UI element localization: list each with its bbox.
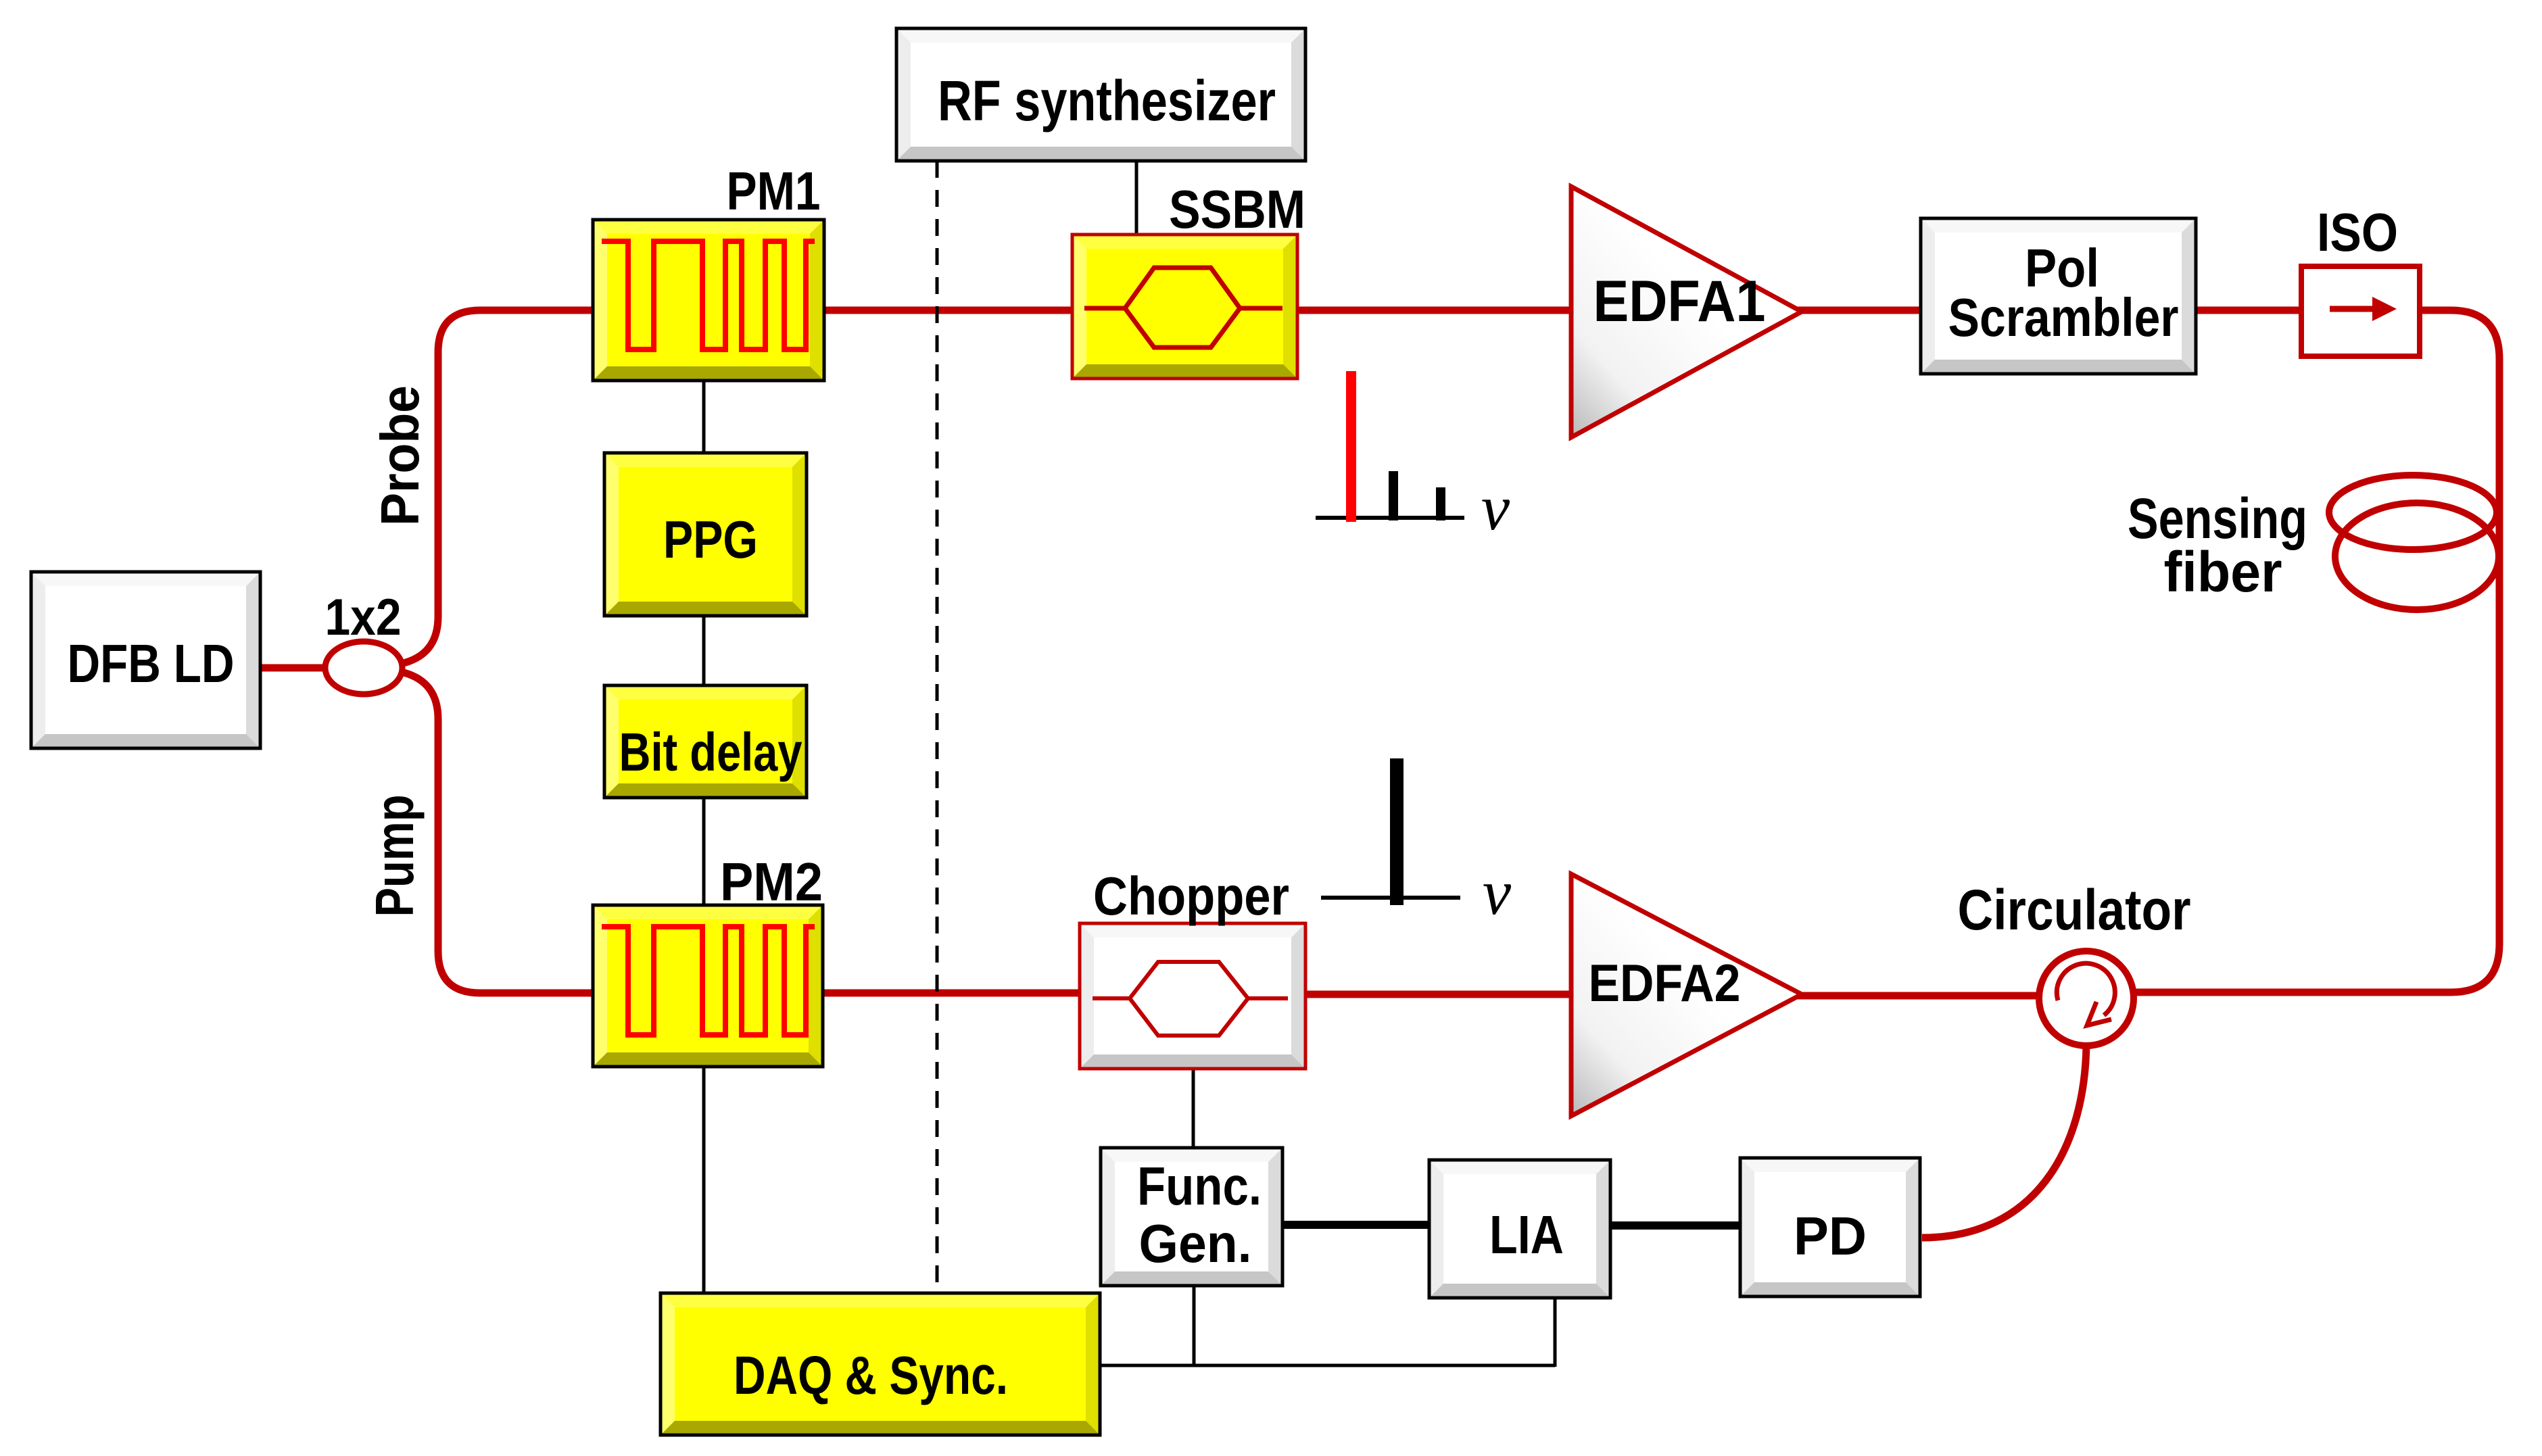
svg-text:PPG: PPG (663, 510, 758, 569)
svg-text:EDFA1: EDFA1 (1593, 269, 1766, 334)
wire Bit delay to PM2 (702, 796, 706, 907)
wire LIA down (1554, 1296, 1557, 1367)
svg-text:ν: ν (1481, 472, 1510, 543)
svg-text:PM1: PM1 (727, 161, 821, 221)
wire chopper to Func Gen (1192, 1067, 1195, 1150)
wire fiber to circulator (2130, 944, 2499, 992)
svg-text:PM2: PM2 (720, 852, 823, 912)
wire circulator to PD (1922, 1044, 2086, 1238)
wire LIA to PD (thick) (1609, 1221, 1742, 1230)
svg-text:SSBM: SSBM (1169, 179, 1305, 239)
svg-text:RF synthesizer: RF synthesizer (938, 69, 1276, 132)
ISO isolator (2301, 266, 2420, 356)
svg-text:Chopper: Chopper (1093, 866, 1289, 926)
PM2 phase modulator (593, 905, 823, 1067)
svg-text:DAQ & Sync.: DAQ & Sync. (734, 1345, 1008, 1405)
SSBM single sideband modulator (1072, 235, 1297, 379)
EDFA1 amplifier (1571, 187, 1802, 437)
dashed sync line (936, 161, 939, 1288)
DFB LD laser box (31, 572, 260, 748)
svg-text:EDFA2: EDFA2 (1589, 953, 1741, 1013)
1x2 coupler (325, 641, 402, 694)
wire ISO to sensing fiber loop (2418, 310, 2499, 944)
svg-text:PD: PD (1794, 1206, 1867, 1266)
wire PM1 to PPG (702, 379, 706, 455)
wire PM2 to chopper (821, 990, 1081, 997)
svg-text:Probe: Probe (370, 385, 430, 526)
svg-text:ISO: ISO (2317, 202, 2398, 262)
DAQ and Sync box (661, 1293, 1100, 1435)
chopper modulator box (1080, 923, 1305, 1069)
wire SSBM to EDFA1 (1296, 307, 1573, 314)
PM1 phase modulator (593, 220, 824, 381)
wire Func Gen down (1193, 1284, 1196, 1365)
wire EDFA1 to Pol Scrambler (1795, 307, 1922, 314)
circulator (2039, 951, 2134, 1046)
wire Func Gen to LIA (thick) (1281, 1221, 1431, 1229)
PD photodetector box (1740, 1158, 1920, 1296)
LIA lock-in amplifier box (1429, 1160, 1610, 1298)
PPG pulse pattern generator (604, 453, 807, 616)
wire chopper to EDFA2 (1304, 991, 1573, 998)
Pol Scrambler box (1921, 218, 2196, 374)
svg-text:Circulator: Circulator (1958, 878, 2191, 942)
wire PPG to Bit delay (702, 614, 706, 687)
svg-text:DFB LD: DFB LD (68, 633, 235, 694)
svg-text:1x2: 1x2 (325, 589, 402, 646)
svg-text:fiber: fiber (2164, 540, 2282, 604)
wire RF synthesizer to SSBM (1135, 159, 1138, 237)
wire Pol Scrambler to ISO (2195, 307, 2303, 314)
sensing fiber coil (2329, 475, 2497, 550)
svg-text:LIA: LIA (1489, 1205, 1564, 1265)
svg-text:Gen.: Gen. (1139, 1213, 1252, 1273)
svg-text:ν: ν (1483, 856, 1512, 928)
RF synthesizer box (896, 28, 1305, 161)
Bit delay box (604, 685, 807, 798)
svg-text:Bit delay: Bit delay (619, 722, 802, 782)
wire (259, 664, 327, 672)
wire PM1 to SSBM (823, 307, 1074, 314)
Func. Gen. box (1101, 1148, 1282, 1286)
wire PM2 to DAQ (702, 1065, 706, 1295)
pump optical spectrum sketch (1321, 896, 1460, 900)
wire EDFA2 to circulator (1795, 992, 2042, 1000)
svg-text:Scrambler: Scrambler (1948, 287, 2179, 347)
probe optical spectrum sketch (1316, 516, 1464, 520)
wire DAQ to LIA (bottom bus) (1100, 1364, 1555, 1367)
EDFA2 amplifier (1571, 874, 1802, 1116)
wire pump branch (401, 672, 595, 993)
svg-text:Pump: Pump (364, 795, 425, 917)
svg-text:Func.: Func. (1137, 1156, 1262, 1216)
wire probe branch (401, 310, 595, 664)
